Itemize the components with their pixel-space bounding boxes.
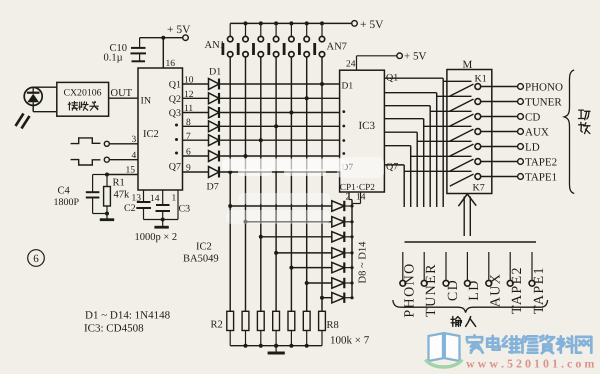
- diode D11: [332, 248, 352, 258]
- resistor R8: [319, 311, 326, 345]
- input bus wire: [405, 241, 537, 243]
- control wire Q4 to switch K4: [384, 119, 471, 207]
- svg-text:R2: R2: [211, 320, 223, 331]
- label amplifier (Chinese): [579, 110, 590, 134]
- svg-text:IC2: IC2: [196, 242, 212, 253]
- svg-text:2: 2: [346, 193, 351, 203]
- wire IC2 output row 3: [183, 112, 209, 114]
- svg-text:C3: C3: [179, 204, 191, 215]
- IC3 pin 14 wire: [352, 192, 366, 204]
- svg-text:+ 5V: + 5V: [404, 51, 426, 63]
- switch K3 blade and contact: [450, 114, 481, 127]
- +5V key bus: [230, 22, 352, 24]
- svg-text:C2: C2: [124, 203, 136, 214]
- svg-text:R1: R1: [113, 178, 125, 189]
- svg-text:PHONO: PHONO: [525, 81, 563, 93]
- labels C2 C3: [124, 203, 190, 215]
- wire column 7 to diode D14: [320, 296, 332, 300]
- svg-text:+ 5V: + 5V: [360, 19, 384, 31]
- watermark book icon: [426, 333, 463, 367]
- svg-text:D7: D7: [207, 182, 219, 193]
- wire row 6 to IC3 D6: [219, 155, 340, 157]
- wire IC2 output row 6: [183, 155, 209, 157]
- wire IC2 output row 7: [183, 171, 209, 173]
- receiver module CX20106: [57, 82, 109, 116]
- brace outputs: [564, 70, 574, 194]
- remote pulse input pin 4: [71, 151, 138, 165]
- diode D12: [332, 262, 352, 272]
- svg-text:Q2: Q2: [169, 94, 181, 105]
- svg-text:TUNER: TUNER: [424, 263, 439, 317]
- svg-text:Q3: Q3: [169, 108, 181, 119]
- wire row 2 to IC3 D2: [219, 97, 340, 99]
- svg-text:14: 14: [356, 193, 366, 203]
- output terminal CD: [518, 111, 541, 123]
- IC3 ellipsis dots: [342, 110, 345, 155]
- svg-text:CD: CD: [525, 111, 540, 123]
- svg-text:K1: K1: [475, 74, 487, 85]
- resistor R2: [227, 311, 234, 345]
- svg-text:TAPE2: TAPE2: [525, 156, 557, 168]
- switch K4 blade and contact: [450, 129, 481, 142]
- wire OUT to IC2 IN: [109, 97, 138, 99]
- pin 15 wire: [105, 166, 138, 177]
- svg-text:Q7: Q7: [169, 162, 181, 173]
- capacitor C10: [131, 38, 147, 62]
- svg-text:100k × 7: 100k × 7: [330, 335, 370, 347]
- +5V terminal of key bus: [352, 19, 384, 31]
- input terminal PHONO: [400, 252, 418, 318]
- svg-text:IC2: IC2: [143, 129, 159, 140]
- svg-text:w w w . 5 2 0 1 0 1 . c o m: w w w . 5 2 0 1 0 1 . c o m: [466, 357, 594, 371]
- switch box M: [447, 70, 492, 194]
- label input (Chinese): [451, 317, 476, 327]
- wire IC2 output row 2: [183, 97, 209, 99]
- svg-text:BA5049: BA5049: [183, 254, 219, 265]
- svg-text:PHONO: PHONO: [403, 262, 418, 317]
- wire column 1 to diode D8: [228, 204, 331, 208]
- label C4 1800P: [54, 185, 80, 208]
- matrix column 5 wire: [290, 57, 292, 311]
- output terminal TAPE2: [518, 156, 558, 168]
- svg-text:1000p × 2: 1000p × 2: [135, 232, 178, 243]
- IC2 right pin numbers 10 12 11 8 7 6 9: [184, 76, 194, 174]
- wire +5V to pin16 junction: [140, 36, 183, 40]
- remote pulse input pin 3: [71, 135, 138, 146]
- wire row 3 to IC3 D3: [219, 112, 340, 114]
- svg-text:D1: D1: [342, 81, 354, 91]
- brace inputs: [393, 300, 548, 313]
- svg-text:15: 15: [126, 166, 136, 176]
- wire switch K3 to output terminal: [480, 116, 517, 118]
- svg-text:TUNER: TUNER: [525, 96, 562, 108]
- output terminal TUNER: [518, 96, 563, 108]
- wire IC2 output row 1: [183, 83, 209, 85]
- diode D8: [332, 201, 352, 211]
- svg-text:AN1: AN1: [205, 40, 225, 51]
- IC2 output labels Q1 Q2 Q3 Q7: [169, 80, 181, 173]
- control wire Q7 to switch K7: [384, 165, 471, 207]
- wire column 5 to diode D12: [289, 266, 331, 270]
- switch K7 blade and contact: [450, 174, 481, 187]
- wire switch K5 to output terminal: [480, 146, 517, 148]
- IC3 pin 2 wire: [346, 192, 353, 203]
- diode D7: [209, 167, 220, 178]
- push button AN4: [267, 21, 278, 57]
- matrix column 4 wire: [275, 57, 277, 311]
- svg-text:3: 3: [132, 135, 137, 145]
- wire switch K6 to output terminal: [480, 161, 517, 163]
- wire column 3 to diode D10: [259, 235, 332, 239]
- push button AN7: [313, 21, 324, 57]
- wire switch K4 to output terminal: [480, 131, 517, 133]
- ground of R1 C4: [100, 212, 114, 220]
- switch K2 blade and contact: [450, 99, 481, 112]
- input terminal TAPE2: [507, 252, 525, 314]
- svg-text:CX20106: CX20106: [63, 88, 101, 99]
- svg-text:+ 5V: + 5V: [167, 24, 191, 36]
- matrix column 7 wire: [321, 57, 323, 311]
- diode D14: [332, 293, 352, 303]
- svg-text:CP1·CP2: CP1·CP2: [340, 183, 375, 193]
- svg-text:4: 4: [132, 151, 137, 161]
- diode D9: [332, 217, 352, 227]
- wire row 4 to IC3 D4: [219, 125, 340, 127]
- matrix column 3 wire: [260, 57, 262, 311]
- diode D2: [209, 93, 220, 104]
- control wire Q1 to switch K1: [384, 78, 471, 207]
- control wire Q5 to switch K5: [384, 132, 471, 207]
- IR light arrows: [16, 114, 30, 129]
- switch K1 blade and contact: [450, 84, 481, 97]
- label C10 0.1u: [104, 43, 128, 64]
- wire row 1 to IC3 D1: [219, 83, 340, 85]
- svg-text:M: M: [463, 59, 473, 71]
- matrix column 1 wire: [229, 57, 231, 311]
- wire row 5 to IC3 D5: [219, 139, 340, 141]
- svg-text:14: 14: [150, 194, 160, 204]
- diode D13: [332, 278, 352, 288]
- wire column 6 to diode D13: [305, 281, 332, 285]
- resistor R6: [288, 311, 295, 345]
- output terminal PHONO: [518, 81, 563, 93]
- wire IC2 output row 4: [183, 125, 209, 127]
- wire column 4 to diode D11: [274, 251, 331, 255]
- wire switch K1 to output terminal: [480, 86, 517, 88]
- wire switch K7 to output terminal: [480, 176, 517, 178]
- svg-text:D8 ~ D14: D8 ~ D14: [358, 241, 369, 284]
- diode D6: [209, 151, 220, 162]
- IC3 CD4508 latch box: [340, 70, 385, 192]
- svg-text:6: 6: [33, 253, 39, 265]
- IC2 bottom pins 13 14 1: [132, 190, 179, 220]
- switch K5 blade and contact: [450, 144, 481, 157]
- svg-text:24: 24: [346, 59, 356, 69]
- power +5V terminal (IC2 supply): [167, 24, 191, 41]
- input feed arrow: [458, 194, 476, 236]
- IC2 ellipsis dots: [175, 124, 178, 155]
- svg-text:0.1µ: 0.1µ: [104, 53, 123, 64]
- svg-text:IC3: IC3: [359, 120, 376, 132]
- ground of resistor rail: [268, 344, 285, 353]
- svg-text:AN7: AN7: [327, 42, 347, 53]
- svg-text:AUX: AUX: [489, 273, 504, 308]
- svg-text:Q7: Q7: [386, 162, 398, 173]
- matrix column 6 wire: [306, 57, 308, 311]
- svg-text:1: 1: [172, 194, 177, 204]
- control wire Q2 to switch K2: [384, 93, 471, 207]
- diode D10: [332, 232, 352, 242]
- svg-text:AUX: AUX: [525, 126, 549, 138]
- resistor R4: [257, 311, 264, 345]
- diode D3: [209, 107, 220, 118]
- IR photodiode detector: [24, 87, 42, 105]
- svg-text:K7: K7: [473, 183, 485, 194]
- push button AN3: [252, 21, 263, 57]
- control wire Q6 to switch K6: [384, 146, 471, 207]
- svg-text:TAPE1: TAPE1: [525, 171, 557, 183]
- svg-text:LD: LD: [525, 141, 540, 153]
- push button AN5: [283, 21, 294, 57]
- switch K6 blade and contact: [450, 159, 481, 172]
- IC3 pin 24 and +5V: [346, 51, 426, 71]
- watermark site name (Chinese): [467, 335, 591, 353]
- diode D4: [209, 121, 220, 132]
- push button AN1: [222, 23, 233, 57]
- wire switch K2 to output terminal: [480, 101, 517, 103]
- resistor R1: [104, 175, 111, 214]
- svg-text:C4: C4: [58, 185, 71, 196]
- resistor R7: [303, 311, 310, 345]
- capacitor C3: [156, 205, 171, 220]
- wire column 2 to diode D9: [244, 220, 332, 224]
- output terminal LD: [518, 141, 540, 153]
- resistor R3: [242, 311, 249, 345]
- capacitor C2: [136, 202, 151, 220]
- wire IC2 output row 5: [183, 139, 209, 141]
- IC2 BA5049 decoder box: [138, 68, 183, 190]
- input terminal TAPE1: [529, 252, 547, 314]
- output terminal AUX: [518, 126, 549, 138]
- svg-text:IN: IN: [141, 95, 152, 106]
- wire photodiode to receiver box: [33, 87, 57, 112]
- input terminal LD: [465, 252, 483, 301]
- output terminal TAPE1: [518, 171, 558, 183]
- strobe bus to CP pins: [350, 200, 353, 300]
- resistor R5: [273, 311, 280, 345]
- wire junction down to IC2 pin 16: [162, 38, 164, 68]
- svg-text:Q1: Q1: [169, 80, 181, 91]
- svg-text:IC3: CD4508: IC3: CD4508: [84, 323, 144, 335]
- svg-text:CD: CD: [446, 279, 461, 301]
- push button AN6: [298, 21, 309, 57]
- svg-text:47k: 47k: [114, 190, 131, 201]
- push button AN2: [237, 21, 248, 57]
- diode D5: [209, 135, 220, 146]
- label R1 47k: [113, 178, 131, 201]
- diode D1: [209, 79, 220, 90]
- input terminal TUNER: [421, 252, 439, 317]
- input terminal AUX: [486, 252, 504, 307]
- svg-text:D1: D1: [209, 67, 221, 78]
- white watermark smudge: [222, 157, 384, 224]
- control wire Q3 to switch K3: [384, 106, 471, 207]
- svg-text:LD: LD: [467, 279, 482, 300]
- capacitor C4: [86, 175, 107, 214]
- bottom rail of C2 C3 and pin1, ground: [144, 218, 179, 228]
- svg-text:R8: R8: [327, 320, 339, 331]
- svg-text:D1 ~ D14: 1N4148: D1 ~ D14: 1N4148: [85, 310, 171, 322]
- resistor bottom rail: [230, 344, 322, 348]
- input terminal CD: [443, 252, 461, 301]
- matrix column 2 wire: [245, 57, 247, 311]
- circled figure number 6: [28, 250, 45, 267]
- matrix junction dots row-column: [228, 82, 324, 174]
- wire row 7 to IC3 D7: [219, 171, 340, 173]
- label IC2 BA5049: [183, 242, 219, 265]
- svg-text:1800P: 1800P: [54, 197, 80, 208]
